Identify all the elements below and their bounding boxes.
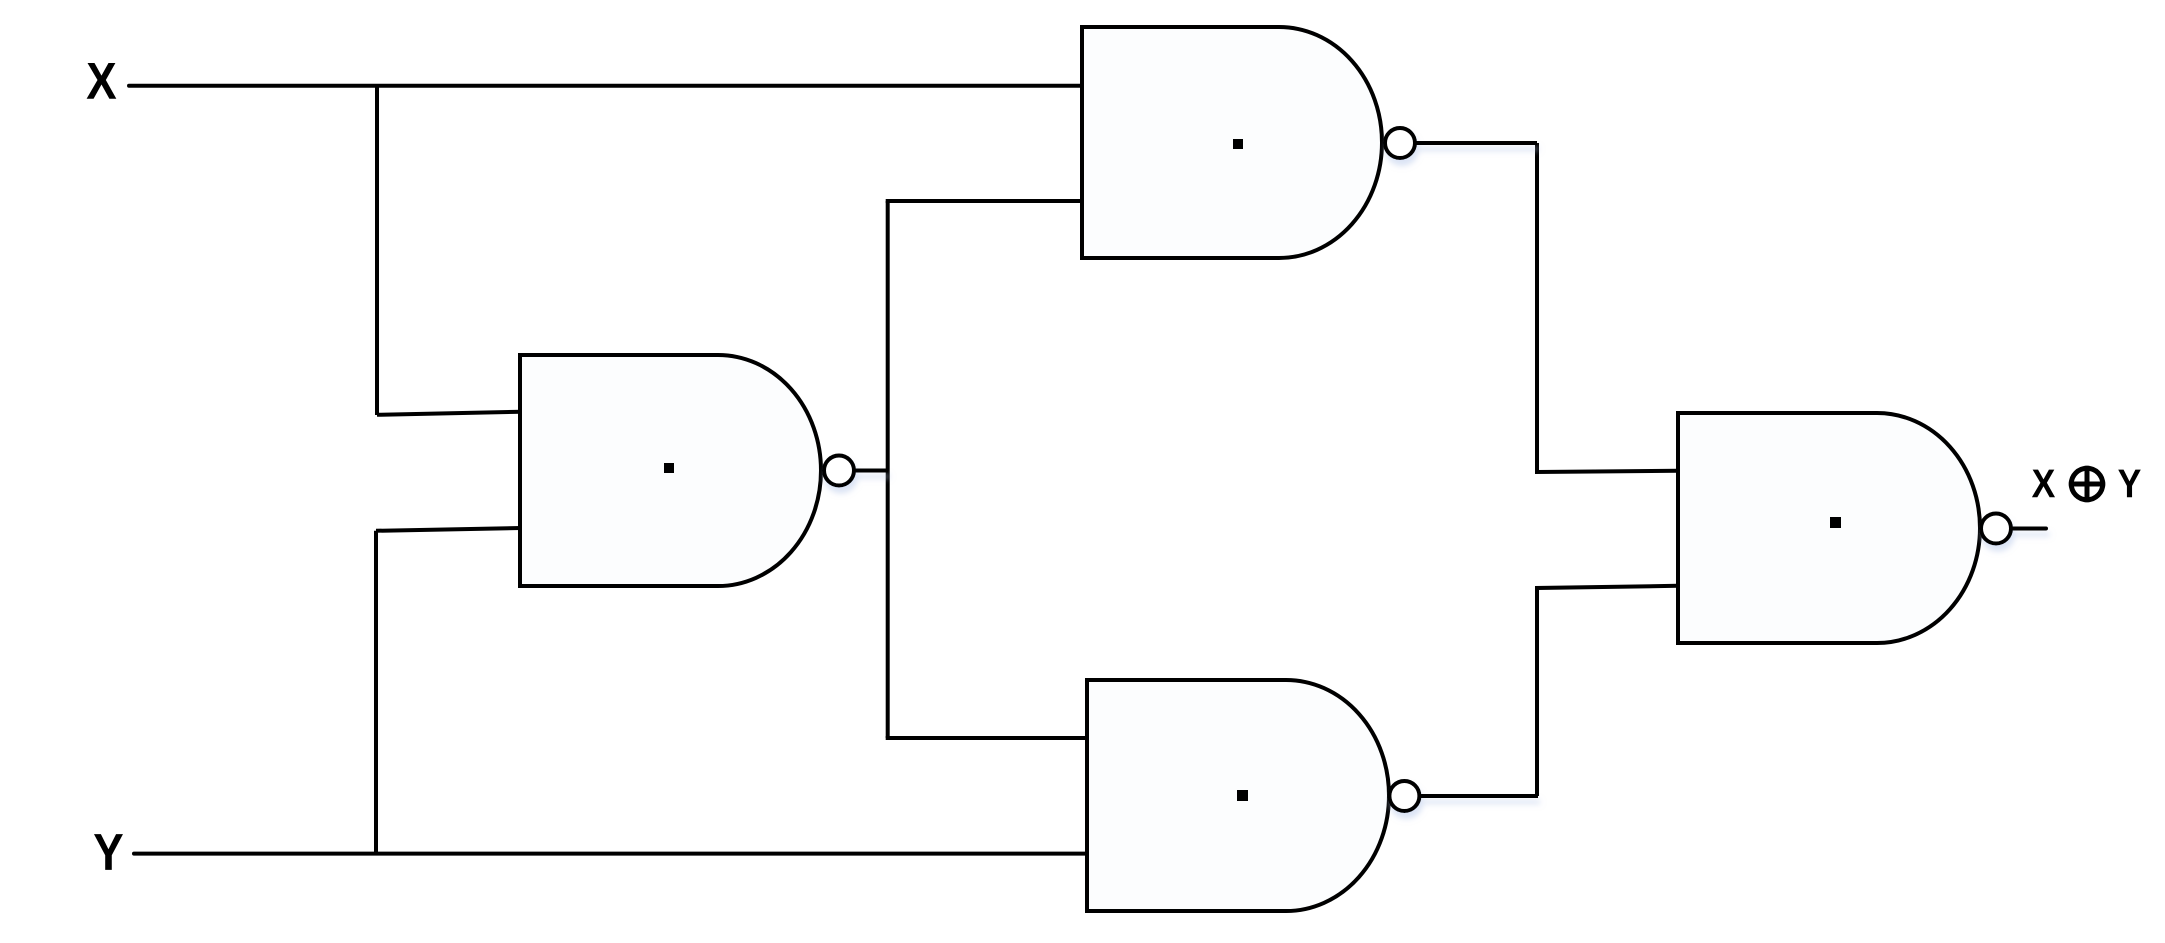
nand-gate U3 center dot xyxy=(1237,790,1248,801)
wire X input horizontal xyxy=(129,84,1082,88)
nand-gate U1 body xyxy=(520,355,821,586)
wire U3 output to U4 bottom input xyxy=(1537,586,1678,796)
nand-gate U1 center dot xyxy=(664,463,674,473)
xor symbol circle-plus xyxy=(2069,466,2105,502)
wire to U3 top input xyxy=(886,736,1087,740)
wire Y branch to U1 bottom input xyxy=(376,528,521,854)
node output label Y xyxy=(2118,470,2141,498)
wire U2 output stub and bubble xyxy=(1385,128,1537,158)
nand-gate U2 body xyxy=(1082,27,1382,258)
node Y input label xyxy=(94,834,123,870)
node X input label xyxy=(87,63,117,99)
wire U2 output to U4 top input xyxy=(1537,143,1678,472)
node output label X xyxy=(2032,470,2055,498)
nand-gate U4 body xyxy=(1678,413,1980,643)
wire X branch to U1 top input xyxy=(377,86,521,415)
nand-gate U2 center dot xyxy=(1233,139,1243,149)
nand-gate U3 body xyxy=(1087,680,1389,911)
wire U4 output stub and bubble xyxy=(1981,514,2046,544)
wire middle vertical bus xyxy=(886,201,890,738)
wire U1 output stub and bubble xyxy=(824,456,888,486)
nand-gate U4 center dot xyxy=(1830,517,1841,528)
wire U3 output stub and bubble xyxy=(1389,781,1538,811)
wire Y input horizontal xyxy=(134,852,1087,856)
wire to U2 bottom input xyxy=(886,199,1082,203)
